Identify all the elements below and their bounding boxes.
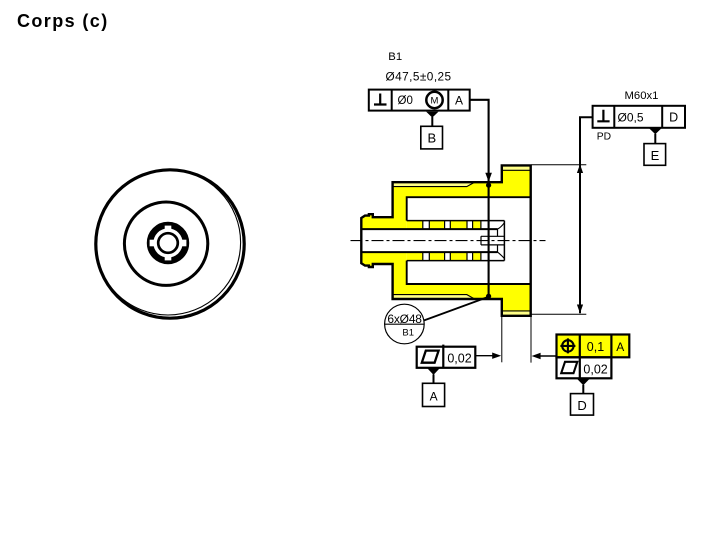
- svg-text:Ø0,5: Ø0,5: [618, 110, 644, 124]
- leader to extension: [475, 355, 493, 357]
- thread root thin line top: [393, 182, 475, 186]
- svg-text:Ø47,5±0,25: Ø47,5±0,25: [386, 69, 452, 83]
- section outer outline: [361, 165, 530, 315]
- spline teeth dividers: [423, 221, 481, 261]
- front view chamfer thin circle: [95, 170, 240, 315]
- extension line flange bottom: [531, 313, 586, 315]
- front view bore circle: [158, 233, 178, 253]
- balloon leader: [424, 297, 488, 321]
- thread root thin line bottom: [393, 295, 475, 299]
- svg-text:M: M: [431, 95, 439, 106]
- svg-text:6xØ48: 6xØ48: [387, 312, 422, 326]
- balloon 6x48: [385, 304, 425, 344]
- feature control frame U5 flatness D: [557, 357, 612, 378]
- front view middle circle: [124, 202, 207, 285]
- bore end chamfer arcs: [498, 223, 505, 259]
- svg-text:B1: B1: [388, 51, 402, 63]
- junction dot upper: [486, 183, 491, 188]
- feature control frame U3 flatness A: [417, 345, 476, 368]
- section thread band light bottom: [393, 295, 475, 299]
- svg-text:E: E: [651, 148, 660, 163]
- cavity inner outline: [407, 197, 531, 284]
- flange chamfer line bottom: [502, 310, 531, 312]
- datum E triangle: [649, 128, 661, 134]
- centerline: [351, 240, 546, 242]
- svg-text:D: D: [669, 111, 678, 125]
- front view spline notch top: [165, 226, 172, 233]
- datum B box: [421, 126, 443, 149]
- flange chamfer band top: [502, 165, 531, 170]
- front view outer circle: [96, 170, 244, 318]
- hub spline teeth upper: [407, 221, 481, 230]
- arrow up: [577, 164, 583, 173]
- svg-text:0,1: 0,1: [587, 340, 604, 354]
- arrow down: [577, 305, 583, 314]
- extension line flange top: [532, 164, 587, 166]
- svg-text:M60x1: M60x1: [625, 90, 659, 102]
- front view spline notch right: [179, 240, 186, 247]
- svg-text:PD: PD: [597, 132, 611, 143]
- datum B triangle: [426, 112, 438, 118]
- front view spline notch bottom: [165, 253, 172, 260]
- junction dot lower: [486, 294, 491, 299]
- datum A box: [423, 383, 445, 406]
- datum D triangle: [577, 379, 589, 385]
- bore lines: [361, 229, 497, 252]
- svg-text:A: A: [616, 340, 624, 354]
- svg-text:0,02: 0,02: [447, 351, 471, 365]
- extension line position D: [530, 317, 532, 363]
- datum E box: [644, 144, 666, 166]
- feature control frame U1 top: [369, 90, 470, 111]
- svg-text:B1: B1: [402, 327, 414, 338]
- leader line B1 frame: [470, 100, 489, 297]
- section upper yellow body: [361, 165, 530, 229]
- section lower yellow body: [361, 252, 530, 316]
- front view spline annulus: [150, 225, 186, 261]
- svg-text:B: B: [427, 131, 436, 146]
- svg-text:Ø0: Ø0: [398, 95, 413, 107]
- front view spline notch left: [150, 240, 157, 247]
- svg-text:0,02: 0,02: [583, 363, 607, 377]
- svg-text:D: D: [577, 398, 586, 413]
- svg-text:A: A: [430, 390, 438, 404]
- flange chamfer line top: [502, 169, 531, 171]
- feature control frame U4 position yellow: [557, 335, 630, 358]
- feature control frame U2 right: [593, 106, 685, 128]
- svg-text:A: A: [455, 93, 463, 107]
- flange chamfer band bottom: [502, 311, 531, 316]
- hub spline teeth lower: [407, 252, 481, 261]
- datum D box: [571, 394, 594, 416]
- section thread band light top: [393, 182, 475, 186]
- hub band outlines: [407, 221, 505, 261]
- svg-text:Corps (c): Corps (c): [17, 11, 109, 31]
- bore end step and groove: [481, 229, 504, 252]
- datum A triangle: [427, 368, 439, 375]
- leader to frame U4: [539, 355, 557, 357]
- dimension line M60: [580, 117, 593, 313]
- extension line flatness A: [501, 317, 503, 362]
- arrow down on leader: [485, 173, 492, 182]
